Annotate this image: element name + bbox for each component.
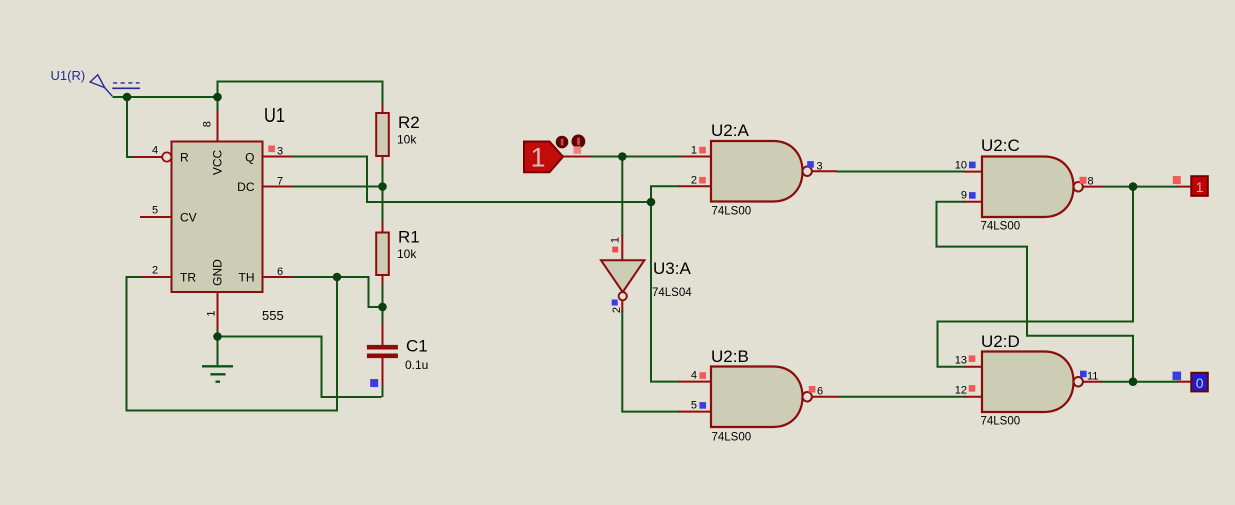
marker red U2:D pin12	[969, 385, 976, 392]
pin stub TR pin2	[141, 276, 172, 278]
node A	[123, 93, 132, 102]
wire C1 bottom to ground rail	[382, 384, 384, 397]
resistor R2 body	[376, 113, 389, 156]
wire U2:D out node up left to U2:C pin9	[937, 202, 1134, 381]
RED PIN STUBS	[133, 103, 1192, 412]
stub indicator 0	[1177, 381, 1192, 383]
marker blue indicator 0	[1173, 372, 1182, 381]
nand gate U2:C	[955, 136, 1094, 233]
logic indicator 1	[1191, 176, 1208, 196]
nand gate U2:B	[691, 347, 823, 444]
pin stub GND pin1	[217, 292, 219, 330]
marker red Q pin3	[268, 146, 275, 153]
stub U2:B pin4	[679, 381, 711, 383]
svg-text:1: 1	[691, 145, 697, 157]
pink marker constant	[574, 146, 582, 154]
wire R1 bottom to node D	[382, 284, 384, 307]
wire node B up over to R2 top	[218, 82, 383, 105]
marker red U2:B pin4	[699, 372, 706, 379]
svg-text:1: 1	[206, 310, 218, 316]
marker red U2:D pin13	[969, 355, 976, 362]
svg-text:13: 13	[955, 355, 967, 367]
svg-text:8: 8	[202, 121, 214, 127]
lead C1 bottom	[382, 358, 384, 385]
svg-text:3: 3	[817, 161, 823, 173]
lead C1 top	[382, 323, 384, 345]
pin stub Q pin3	[263, 156, 294, 158]
marker red indicator 1	[1173, 176, 1181, 184]
wire node F down to inverter input	[621, 158, 623, 237]
lead R2 bottom	[382, 155, 384, 164]
svg-text:R1: R1	[398, 228, 420, 247]
node DC/R divider	[378, 182, 387, 191]
svg-text:74LS00: 74LS00	[981, 221, 1021, 233]
svg-text:R: R	[180, 151, 189, 165]
svg-text:1: 1	[530, 143, 545, 173]
gate body U2:A	[711, 141, 803, 202]
svg-text:10k: 10k	[397, 247, 417, 261]
svg-text:U2:C: U2:C	[981, 136, 1020, 155]
constant body	[524, 142, 563, 173]
resistor R1 body	[376, 233, 389, 276]
logic indicator 0	[1191, 373, 1208, 392]
svg-text:0: 0	[1196, 375, 1204, 391]
stub inverter pin1	[621, 235, 623, 261]
svg-text:74LS00: 74LS00	[712, 206, 752, 218]
svg-text:U1(R): U1(R)	[51, 68, 86, 83]
toggle button left	[556, 136, 569, 149]
marker blue C1	[370, 379, 378, 387]
stub U2:C pin10	[964, 171, 982, 173]
svg-text:1: 1	[610, 237, 622, 243]
marker blue inverter pin2	[612, 300, 618, 306]
marker blue U2:D out	[1080, 371, 1087, 378]
capacitor C1 plates	[367, 345, 398, 350]
svg-text:DC: DC	[237, 180, 255, 194]
pin stub CV pin5	[140, 216, 172, 218]
node U2:D out	[1129, 377, 1138, 386]
wire node D down toward C1	[382, 307, 384, 324]
svg-text:8: 8	[1088, 176, 1094, 188]
svg-text:TH: TH	[239, 271, 255, 285]
pin stub R pin4	[133, 156, 162, 158]
stub indicator 1	[1177, 186, 1192, 188]
svg-text:555: 555	[262, 308, 284, 323]
wire constant 1 to U2:A pin1	[590, 156, 680, 158]
marker blue U2:A out	[807, 161, 814, 168]
555 timer U1 body	[172, 142, 263, 293]
svg-text:3: 3	[277, 146, 283, 158]
wire U2:D out to indicator 0	[1100, 381, 1178, 383]
svg-text:U1: U1	[264, 105, 285, 127]
lead R2 top	[382, 103, 384, 114]
svg-text:2: 2	[691, 175, 697, 187]
bubble U2:C	[1074, 182, 1083, 191]
svg-text:4: 4	[691, 370, 697, 382]
lead R1 top	[382, 221, 384, 233]
svg-text:6: 6	[817, 386, 823, 398]
stub U2:D pin11 out	[1083, 381, 1102, 383]
node F constant	[618, 152, 627, 161]
node B	[213, 93, 222, 102]
wire inverter output down to U2:B pin5	[622, 311, 680, 412]
toggle button right	[572, 135, 586, 149]
svg-text:74LS04: 74LS04	[652, 287, 692, 299]
voltage probe U1(R)	[90, 75, 140, 96]
node G	[647, 198, 656, 207]
svg-text:0.1u: 0.1u	[405, 358, 428, 372]
wire node E to node D	[337, 277, 381, 307]
stub U2:A pin2	[679, 185, 711, 187]
marker red U2:C out	[1080, 177, 1087, 184]
lead R1 bottom	[382, 274, 384, 285]
inverter bubble	[619, 292, 627, 300]
marker red U2:A pin2	[699, 177, 706, 184]
svg-text:1: 1	[1196, 179, 1204, 195]
svg-text:11: 11	[1087, 371, 1098, 383]
marker red U2:B out	[809, 386, 816, 393]
wire U2:B out to U2:D pin12	[838, 396, 965, 398]
pin R inversion bubble	[162, 152, 171, 161]
node U2:C out	[1129, 182, 1138, 191]
marker red U2:A pin1	[699, 147, 706, 154]
node E TH	[333, 273, 342, 282]
wire U2:C out node down left to U2:D pin13	[938, 188, 1134, 367]
svg-text:TR: TR	[180, 271, 196, 285]
svg-text:2: 2	[152, 265, 158, 277]
wire node B down to pin 8 stub	[217, 97, 219, 112]
svg-text:10k: 10k	[397, 133, 417, 147]
wire gnd node to C1 bottom rail	[218, 337, 382, 398]
logic constant 1	[524, 135, 585, 173]
svg-text:VCC: VCC	[211, 150, 225, 176]
stub U2:D pin13	[964, 366, 982, 368]
svg-text:U2:D: U2:D	[981, 332, 1020, 351]
stub U2:D pin12	[964, 396, 982, 398]
pin stub VCC pin8	[217, 111, 219, 141]
indicator box low	[1191, 373, 1208, 392]
nand gate U2:D	[955, 332, 1099, 428]
marker blue U2:B pin5	[699, 402, 706, 409]
svg-text:C1: C1	[406, 337, 428, 356]
pin stub DC pin7	[263, 186, 294, 188]
stub U2:C pin8 out	[1083, 186, 1103, 188]
svg-text:GND: GND	[211, 259, 225, 286]
wire TH pin6 to node E	[293, 276, 338, 278]
inverter U3:A	[601, 260, 644, 292]
svg-text:2: 2	[611, 307, 623, 313]
wire U2:C out to indicator 1	[1101, 186, 1178, 188]
svg-text:U2:B: U2:B	[711, 347, 749, 366]
gate body U2:D	[982, 352, 1074, 413]
svg-text:74LS00: 74LS00	[712, 432, 752, 444]
wire pin1 to gnd node to ground symbol	[217, 329, 219, 365]
wire probe to node A	[113, 96, 219, 98]
nand gate U2:A	[691, 121, 823, 218]
wire Q pin3 to node C long horizontal	[293, 157, 652, 203]
ground symbol	[202, 366, 233, 381]
logic state marker squares	[268, 146, 1181, 409]
stub U2:B pin5	[679, 411, 711, 413]
gate body U2:C	[982, 157, 1074, 218]
svg-text:U2:A: U2:A	[711, 121, 749, 140]
stub U2:A pin3 out	[812, 170, 838, 172]
marker red inverter pin1	[612, 247, 618, 253]
svg-text:5: 5	[691, 400, 697, 412]
svg-text:9: 9	[961, 190, 967, 202]
stub U2:B pin6 out	[812, 396, 840, 398]
svg-text:4: 4	[152, 145, 158, 157]
svg-text:U3:A: U3:A	[653, 259, 691, 278]
svg-text:5: 5	[152, 205, 158, 217]
svg-text:Q: Q	[245, 151, 254, 165]
svg-text:74LS00: 74LS00	[981, 416, 1021, 428]
stub inverter pin2	[621, 301, 623, 312]
bubble U2:B	[803, 392, 812, 401]
gate body U2:B	[711, 367, 803, 428]
wire node A down to pin R	[127, 96, 141, 157]
stub constant1 output	[562, 156, 591, 158]
bubble U2:D	[1074, 377, 1083, 386]
wire DC pin7 to R divider node	[293, 186, 382, 188]
wire node G up to U2:A pin2	[651, 186, 680, 201]
marker blue U2:C pin10	[969, 162, 976, 169]
pin stub TH pin6	[263, 276, 294, 278]
wire TR loop to TH node E	[127, 277, 338, 411]
node gnd	[213, 332, 222, 341]
wire U2:A out to U2:C pin10	[836, 171, 965, 173]
svg-text:7: 7	[277, 176, 283, 188]
stub U2:C pin9	[964, 201, 982, 203]
bubble U2:A	[803, 167, 812, 176]
svg-text:12: 12	[955, 385, 967, 397]
stub U2:A pin1	[679, 156, 711, 158]
wire node G down to U2:B pin4	[651, 203, 680, 382]
node D C1 top	[378, 303, 387, 312]
svg-text:CV: CV	[180, 211, 197, 225]
svg-text:6: 6	[277, 266, 283, 278]
svg-text:R2: R2	[398, 113, 420, 132]
svg-text:10: 10	[955, 160, 967, 172]
wire R2 bottom to node to R1 top	[382, 163, 384, 222]
marker blue U2:C pin9	[969, 192, 976, 199]
indicator box high	[1191, 176, 1208, 196]
